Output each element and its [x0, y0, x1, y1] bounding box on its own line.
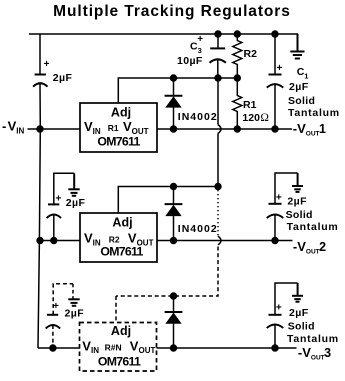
node: C3 bottom / track	[214, 74, 221, 81]
node: C7 bottom on output3	[271, 344, 278, 351]
node: R1 bottom on output1	[234, 125, 241, 132]
svg-text:2µF: 2µF	[53, 72, 73, 84]
svg-text:VIN: VIN	[84, 119, 101, 136]
svg-text:R2: R2	[109, 235, 120, 245]
svg-text:Adj: Adj	[112, 216, 132, 230]
svg-text:IN4002: IN4002	[178, 111, 218, 123]
svg-text:Tantalum: Tantalum	[287, 221, 339, 233]
node: C1 bottom on output1	[271, 125, 278, 132]
wire: track vertical x=218 section1-2 with hop over output1	[217, 78, 219, 125]
capacitor C3 10uF	[217, 34, 219, 48]
svg-text:VIN: VIN	[84, 231, 101, 248]
node: D3 cathode on track3	[170, 292, 177, 299]
wire: ground bracket C7 right section 3	[275, 283, 298, 315]
svg-text:C1: C1	[297, 66, 309, 81]
node: -Vin input	[36, 125, 43, 132]
svg-text:2µF: 2µF	[65, 308, 85, 320]
node: D1 anode on output1	[170, 125, 177, 132]
svg-text:10µF: 10µF	[177, 55, 203, 67]
wire: bottom rail to U3 Vin	[38, 347, 80, 349]
op-amp U2 OM7611 regulator box	[80, 213, 157, 262]
capacitor C1 2uF solid tantalum	[274, 34, 276, 75]
svg-text:+: +	[276, 303, 282, 314]
capacitor C7 2uF solid tantalum section 3	[267, 315, 284, 328]
node: C6 bottom	[49, 344, 56, 351]
wire: hop over output2	[218, 236, 221, 245]
node: R2/R1 junction	[234, 74, 241, 81]
capacitor C5 2uF solid tantalum section 2	[267, 204, 284, 218]
ground GND top-right	[290, 34, 304, 59]
diode D2 IN4002	[173, 187, 175, 205]
svg-text:+: +	[197, 34, 203, 45]
wire: ground bracket section 2 left	[54, 173, 74, 204]
svg-text:-: -	[2, 119, 6, 134]
svg-text:R#N: R#N	[105, 342, 122, 352]
wire: output net 2 (Vout2)	[157, 240, 293, 242]
svg-text:120Ω: 120Ω	[242, 112, 269, 124]
ground GND section 2 left	[68, 173, 79, 196]
wire: Adj track net section 1 (y=78)	[118, 78, 237, 103]
capacitor C6 2uF section 3 (plates solid)	[46, 315, 60, 329]
svg-text:2µF: 2µF	[289, 81, 309, 93]
svg-text:VOUT: VOUT	[130, 338, 156, 355]
wire: output net 1 (Vout1)	[157, 128, 292, 130]
wire: -Vin input to U1	[40, 128, 80, 130]
wire: dashed cap stem	[52, 325, 54, 348]
svg-text:R2: R2	[244, 48, 258, 60]
wire: ground bracket C5 right section 2	[275, 173, 298, 204]
resistor R2	[233, 34, 242, 78]
svg-text:VOUT: VOUT	[123, 119, 149, 136]
svg-text:Adj: Adj	[111, 324, 131, 338]
node: R2 top	[234, 30, 241, 37]
svg-text:Solid: Solid	[286, 209, 313, 221]
svg-text:R1: R1	[243, 99, 257, 111]
wire: dashed Adj riser U3	[115, 296, 117, 323]
wire: rail to U2 Vin	[40, 240, 80, 242]
svg-text:+: +	[44, 59, 50, 70]
diode D1 IN4002 (cathode up)	[173, 78, 175, 96]
node: D1 cathode / track	[170, 74, 177, 81]
node: C1 top	[271, 30, 278, 37]
svg-text:OM7611: OM7611	[100, 245, 143, 259]
svg-text:-VOUT2: -VOUT2	[293, 239, 326, 256]
svg-text:2µF: 2µF	[66, 197, 86, 209]
node: rail at section2	[36, 237, 43, 244]
svg-text:+: +	[56, 194, 62, 205]
svg-text:Solid: Solid	[288, 95, 315, 107]
svg-text:VIN: VIN	[82, 338, 99, 355]
node: D2 cathode on track2	[170, 183, 177, 190]
svg-text:Multiple Tracking Regulators: Multiple Tracking Regulators	[53, 3, 291, 20]
svg-text:Tantalum: Tantalum	[288, 107, 340, 119]
node: C4 bottom	[50, 237, 57, 244]
svg-text:+: +	[277, 63, 283, 74]
wire: track dashed segment to section 3	[116, 247, 218, 297]
svg-text:+: +	[276, 193, 282, 204]
node: C3 top	[214, 30, 221, 37]
op-amp U1 OM7611 regulator box	[80, 103, 157, 152]
capacitor C2 2uF input (plates)	[33, 75, 47, 87]
diode D3 (implied)	[173, 296, 175, 312]
svg-text:Solid: Solid	[288, 320, 315, 332]
wire: top ground rail	[29, 33, 298, 35]
svg-text:IN4002: IN4002	[178, 223, 218, 235]
node: D3 anode on output3	[170, 344, 177, 351]
svg-text:2µF: 2µF	[287, 196, 307, 208]
wire: output net 3 (Vout3)	[157, 347, 297, 349]
svg-text:-VOUT3: -VOUT3	[298, 345, 331, 362]
wire: Adj track net section 2 (y=186.5)	[118, 187, 218, 214]
wire: track dotted segment section 2 to hop	[217, 190, 219, 236]
ground GND section 2 right	[292, 173, 303, 192]
wire: left input rail upper segment (to C2 top plate)	[39, 34, 41, 75]
wire: dashed ground bracket section 3 left	[53, 284, 73, 315]
wire: -Vin lead-in stub	[28, 128, 41, 130]
capacitor C4 2uF section 2 (plates)	[47, 204, 61, 218]
svg-text:VIN: VIN	[8, 119, 25, 136]
svg-text:OM7611: OM7611	[97, 135, 140, 149]
op-amp U3 OM7611 regulator box (dashed)	[80, 323, 157, 372]
ground GND section 3 left	[72, 284, 74, 300]
svg-text:Adj: Adj	[111, 106, 131, 120]
svg-text:OM7611: OM7611	[98, 355, 141, 369]
svg-text:-VOUT1: -VOUT1	[293, 121, 326, 138]
node: D2 anode on output2	[170, 237, 177, 244]
resistor R1 120ohm	[233, 78, 242, 129]
node: track vertical on track2	[214, 183, 221, 190]
svg-text:2µF: 2µF	[289, 307, 309, 319]
node: C5 bottom on output2	[271, 237, 278, 244]
svg-text:Tantalum: Tantalum	[287, 333, 339, 345]
svg-text:R1: R1	[108, 123, 119, 133]
svg-text:+: +	[53, 301, 59, 312]
wire: left input rail lower segment	[38, 83, 40, 348]
ground GND section 3 right	[292, 283, 303, 302]
